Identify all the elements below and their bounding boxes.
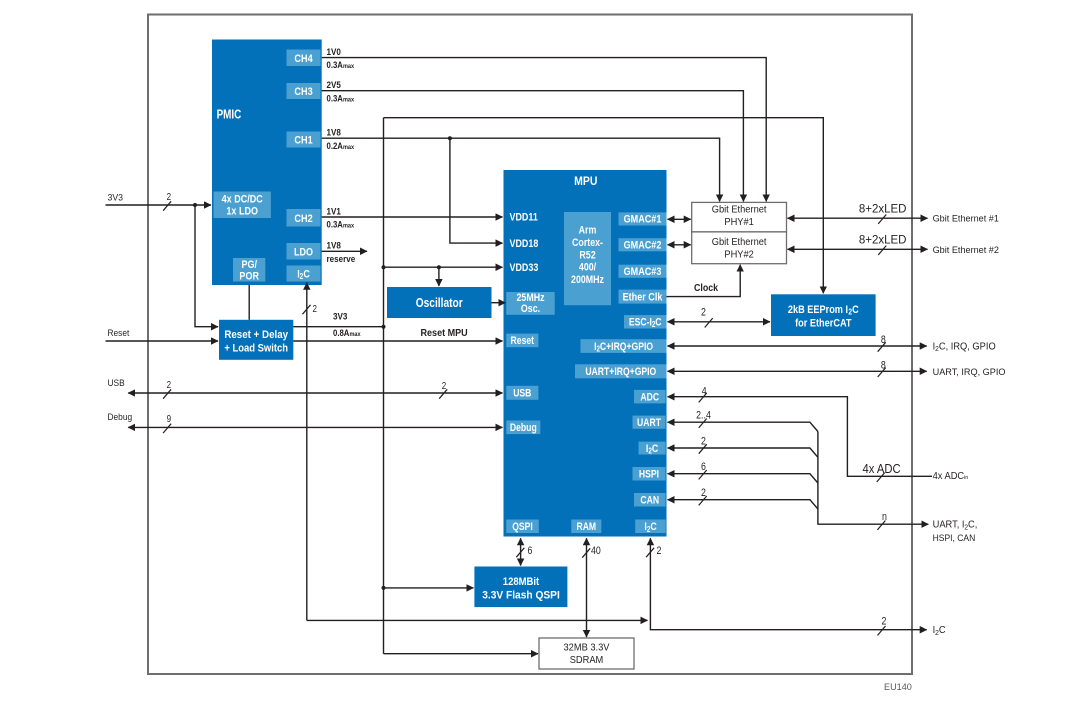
wire GMAC#1 to PHY#1 xyxy=(668,218,691,220)
svg-text:2: 2 xyxy=(313,303,317,314)
svg-text:ADC: ADC xyxy=(640,392,659,404)
PMIC sub-block CH1 xyxy=(287,132,321,148)
svg-text:9: 9 xyxy=(167,413,171,424)
svg-text:CAN: CAN xyxy=(640,495,659,507)
MPU sub-block Ether Clk xyxy=(619,290,667,304)
node rail-flash junction xyxy=(382,586,386,590)
svg-text:3V3: 3V3 xyxy=(108,192,124,202)
svg-text:I2C: I2C xyxy=(297,269,310,282)
svg-text:reserve: reserve xyxy=(327,253,356,264)
MPU sub-block I2C bottom xyxy=(635,520,666,534)
svg-text:8: 8 xyxy=(881,360,886,372)
svg-text:POR: POR xyxy=(239,271,259,283)
svg-text:UART+IRQ+GPIO: UART+IRQ+GPIO xyxy=(585,366,656,378)
block 32MB 3.3V SDRAM xyxy=(539,638,634,669)
svg-text:PG/: PG/ xyxy=(241,259,257,271)
node 3V3 junction xyxy=(193,203,197,207)
wire VDD33 line xyxy=(384,266,503,268)
svg-text:Reset: Reset xyxy=(108,327,130,338)
svg-text:QSPI: QSPI xyxy=(512,521,533,533)
svg-text:I2C: I2C xyxy=(644,521,656,534)
svg-text:for EtherCAT: for EtherCAT xyxy=(795,318,852,330)
svg-text:6: 6 xyxy=(528,545,533,557)
svg-text:6: 6 xyxy=(701,461,706,473)
wire PHY#1 LED bus xyxy=(788,203,928,224)
svg-text:4x ADCin: 4x ADCin xyxy=(933,471,969,482)
svg-text:128MBit: 128MBit xyxy=(503,577,540,589)
svg-text:1x LDO: 1x LDO xyxy=(226,206,258,218)
svg-text:2V5: 2V5 xyxy=(327,79,341,90)
svg-text:VDD18: VDD18 xyxy=(510,238,539,250)
MPU sub-block UART+IRQ+GPIO xyxy=(575,364,667,378)
svg-text:8+2xLED: 8+2xLED xyxy=(859,235,907,247)
svg-text:SDRAM: SDRAM xyxy=(570,655,604,666)
svg-text:2: 2 xyxy=(701,487,706,499)
MPU sub-block HSPI xyxy=(633,467,666,481)
svg-text:ESC-I2C: ESC-I2C xyxy=(629,317,662,330)
svg-text:Debug: Debug xyxy=(108,411,133,422)
svg-text:Osc.: Osc. xyxy=(521,303,540,315)
MPU sub-block CAN xyxy=(634,493,666,507)
node rail-3V3 junction xyxy=(382,325,386,329)
svg-text:40: 40 xyxy=(591,545,601,557)
svg-text:EU140: EU140 xyxy=(884,682,912,692)
svg-text:2kB EEProm I2C: 2kB EEProm I2C xyxy=(788,304,859,317)
svg-text:Ether Clk: Ether Clk xyxy=(623,292,663,304)
svg-text:2: 2 xyxy=(657,545,662,557)
svg-text:HSPI: HSPI xyxy=(639,469,659,481)
svg-text:Clock: Clock xyxy=(694,283,719,293)
svg-text:4: 4 xyxy=(702,386,707,398)
MPU sub-block GMAC#3 xyxy=(619,265,667,279)
svg-text:4x DC/DC: 4x DC/DC xyxy=(222,194,263,206)
wire rail to SDRAM xyxy=(384,653,539,655)
svg-text:2: 2 xyxy=(167,379,171,390)
wire peripheral bus to UART I2C HSPI CAN output xyxy=(818,432,928,530)
MPU sub-block 25MHz Osc. xyxy=(506,292,554,315)
svg-text:UART, I2C,: UART, I2C, xyxy=(933,519,978,531)
MPU sub-block RAM xyxy=(571,520,601,534)
svg-text:400/: 400/ xyxy=(579,262,596,274)
block Gbit Ethernet PHY#2 xyxy=(692,232,787,264)
svg-text:Gbit Ethernet: Gbit Ethernet xyxy=(712,237,767,248)
svg-text:VDD33: VDD33 xyxy=(510,262,539,274)
wire rail to flash xyxy=(384,587,474,589)
block Oscillator xyxy=(387,287,492,318)
svg-text:2..4: 2..4 xyxy=(696,410,711,422)
block 2kB EEProm I2C for EtherCAT xyxy=(771,294,876,336)
svg-text:Oscillator: Oscillator xyxy=(416,296,463,310)
svg-text:CH4: CH4 xyxy=(294,53,313,65)
svg-text:2: 2 xyxy=(701,436,706,448)
PMIC sub-block 4x DC/DC 1x LDO xyxy=(214,192,271,219)
wire CAN bus xyxy=(668,487,818,509)
svg-text:VDD11: VDD11 xyxy=(510,211,539,223)
MPU sub-block I2C right xyxy=(639,442,666,456)
wire 3V3 branch down to Reset+Delay xyxy=(195,205,218,327)
PMIC sub-block CH4 xyxy=(287,50,321,67)
wire 1V0 from CH4 to PHY xyxy=(322,46,767,201)
svg-text:I2C, IRQ, GPIO: I2C, IRQ, GPIO xyxy=(933,341,996,353)
wire oscillator supply drop xyxy=(438,267,440,286)
wire oscillator to 25MHz Osc xyxy=(492,302,506,304)
svg-text:Gbit Ethernet #1: Gbit Ethernet #1 xyxy=(933,214,999,224)
svg-text:UART, IRQ, GPIO: UART, IRQ, GPIO xyxy=(933,367,1006,377)
MPU sub-block ESC-I2C xyxy=(624,315,667,329)
wire RAM to SDRAM xyxy=(582,538,601,637)
PMIC sub-block I2C xyxy=(287,266,321,282)
svg-text:GMAC#3: GMAC#3 xyxy=(624,266,662,278)
svg-text:1V0: 1V0 xyxy=(327,46,341,57)
wire Debug line xyxy=(108,411,503,433)
block 128MBit 3.3V Flash QSPI xyxy=(474,567,567,608)
svg-text:USB: USB xyxy=(108,377,125,388)
svg-text:CH3: CH3 xyxy=(294,86,313,98)
MPU sub-block GMAC#2 xyxy=(619,238,667,252)
svg-text:Gbit Ethernet #2: Gbit Ethernet #2 xyxy=(933,245,999,255)
block Reset + Delay + Load Switch xyxy=(219,320,293,360)
svg-text:1V8: 1V8 xyxy=(327,127,341,138)
svg-text:3V3: 3V3 xyxy=(333,311,347,322)
svg-text:Gbit Ethernet: Gbit Ethernet xyxy=(712,204,767,215)
svg-text:CH2: CH2 xyxy=(294,213,313,225)
svg-text:MPU: MPU xyxy=(574,176,597,189)
svg-text:HSPI, CAN: HSPI, CAN xyxy=(933,532,976,543)
svg-text:8: 8 xyxy=(881,334,886,346)
wire Ether Clk to PHY#2 Clock xyxy=(667,265,741,297)
MPU sub-block I2C+IRQ+GPIO xyxy=(581,339,667,353)
wire MPU I2C to external I2C xyxy=(646,538,927,635)
svg-text:GMAC#1: GMAC#1 xyxy=(624,214,662,226)
MPU sub-block ADC xyxy=(634,390,666,404)
node VDD33-oscillator junction xyxy=(437,265,441,269)
wire 3V3 power rail vertical xyxy=(383,118,385,654)
PMIC sub-block LDO xyxy=(287,243,321,260)
svg-text:I2C: I2C xyxy=(646,443,658,456)
wire GMAC#2 to PHY#2 xyxy=(668,244,691,246)
svg-text:200MHz: 200MHz xyxy=(571,274,604,286)
svg-text:1V8: 1V8 xyxy=(327,240,341,251)
node rail-VDD33 junction xyxy=(382,265,386,269)
wire I2C bus right xyxy=(668,436,818,458)
svg-text:Debug: Debug xyxy=(510,422,537,434)
svg-text:2: 2 xyxy=(882,616,887,628)
svg-text:Reset: Reset xyxy=(511,335,535,347)
svg-text:Reset MPU: Reset MPU xyxy=(421,327,468,338)
svg-text:2: 2 xyxy=(167,191,171,202)
PMIC sub-block CH2 xyxy=(287,209,321,227)
wire QSPI to flash xyxy=(516,538,533,565)
MPU sub-block QSPI xyxy=(506,520,539,534)
MPU sub-block UART xyxy=(633,416,666,430)
diagram outer border xyxy=(148,15,912,675)
svg-text:2: 2 xyxy=(442,380,446,391)
wire 1V8 reserve output xyxy=(322,240,367,264)
svg-text:1V1: 1V1 xyxy=(327,206,341,217)
svg-text:I2C+IRQ+GPIO: I2C+IRQ+GPIO xyxy=(594,341,653,354)
MPU sub-block USB xyxy=(506,386,538,400)
wire Reset MPU line xyxy=(293,327,502,341)
svg-text:+ Load Switch: + Load Switch xyxy=(224,343,288,355)
wire USB line xyxy=(108,377,503,398)
MPU sub-block Reset xyxy=(506,334,538,348)
svg-text:4x ADC: 4x ADC xyxy=(863,461,901,476)
svg-text:8+2xLED: 8+2xLED xyxy=(859,203,907,215)
svg-text:3.3V Flash QSPI: 3.3V Flash QSPI xyxy=(482,589,560,602)
svg-text:GMAC#2: GMAC#2 xyxy=(624,240,662,252)
svg-text:CH1: CH1 xyxy=(294,135,313,147)
svg-text:R52: R52 xyxy=(579,250,596,262)
wire ADC bus to 4x ADCin xyxy=(668,386,933,482)
wire HSPI bus xyxy=(668,461,818,483)
wire Reset input xyxy=(106,327,219,341)
svg-text:Reset + Delay: Reset + Delay xyxy=(224,329,288,342)
MPU sub-block Arm Cortex-R52 400/200MHz xyxy=(564,212,611,305)
MPU sub-block GMAC#1 xyxy=(619,212,667,226)
wire 1V1 from CH2 to VDD11 xyxy=(322,206,503,230)
wire UART bus xyxy=(668,410,818,432)
node 1V8-VDD18 junction xyxy=(448,136,452,140)
wire VDD18 branch xyxy=(450,138,503,243)
svg-text:PHY#2: PHY#2 xyxy=(724,249,753,260)
svg-text:Cortex-: Cortex- xyxy=(572,237,603,249)
wire PHY#2 LED bus xyxy=(788,235,928,256)
wire 1V8 from CH1 to PHY xyxy=(322,127,720,201)
svg-text:Arm: Arm xyxy=(579,225,597,237)
svg-text:PHY#1: PHY#1 xyxy=(724,217,753,228)
wire top power lane to EEProm xyxy=(384,118,824,294)
MPU sub-block Debug xyxy=(506,421,540,435)
block Gbit Ethernet PHY#1 xyxy=(692,202,787,232)
wire 2V5 from CH3 to PHY xyxy=(322,79,744,201)
wire ESC-I2C to EEProm xyxy=(668,307,771,328)
wire UART+IRQ+GPIO bus xyxy=(668,360,927,377)
block PMIC xyxy=(212,40,322,286)
block MPU xyxy=(504,170,667,537)
label UART I2C HSPI CAN xyxy=(933,519,978,542)
svg-text:PMIC: PMIC xyxy=(217,109,242,123)
svg-text:RAM: RAM xyxy=(576,521,596,533)
svg-text:n: n xyxy=(882,511,887,523)
svg-text:LDO: LDO xyxy=(294,247,313,259)
PMIC sub-block PG/POR xyxy=(233,258,265,283)
svg-text:USB: USB xyxy=(513,388,531,400)
svg-text:2: 2 xyxy=(701,307,706,319)
wire Reset+Delay 3V3 0.8A output to rail xyxy=(293,311,383,338)
svg-text:UART: UART xyxy=(637,417,661,429)
svg-text:I2C: I2C xyxy=(933,625,946,637)
svg-text:32MB 3.3V: 32MB 3.3V xyxy=(563,642,610,653)
wire PMIC I2C bus down and to MPU I2C xyxy=(303,283,648,621)
PMIC sub-block CH3 xyxy=(287,83,321,99)
wire 3V3 input to PMIC xyxy=(106,191,212,211)
wire I2C+IRQ+GPIO bus xyxy=(668,334,927,351)
wire PG/POR to Reset+Delay xyxy=(248,285,250,320)
